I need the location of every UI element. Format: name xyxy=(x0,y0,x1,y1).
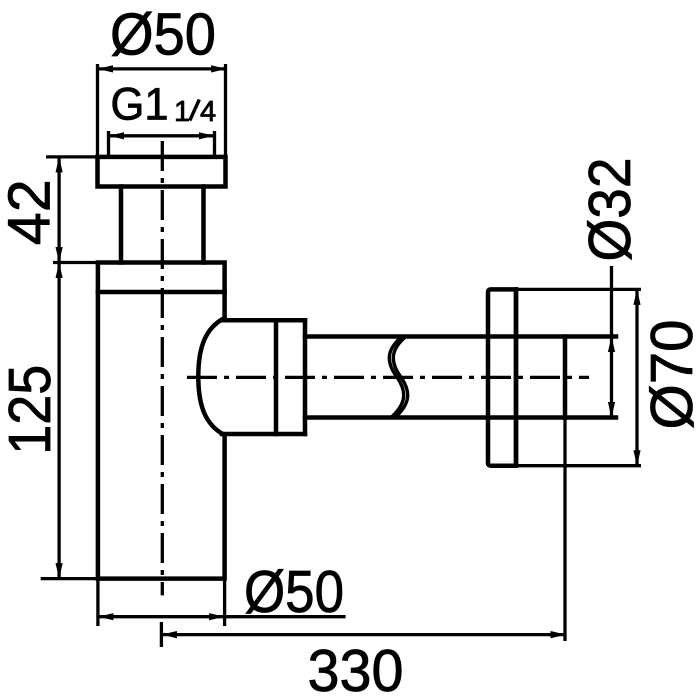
outlet pipe top wall xyxy=(305,334,616,339)
pipe break squiggle xyxy=(389,337,407,418)
arrow 42 bottom xyxy=(56,247,63,263)
horizontal centerline xyxy=(187,376,589,379)
svg-text:G1: G1 xyxy=(111,79,169,130)
svg-text:125: 125 xyxy=(0,365,63,455)
svg-text:Ø32: Ø32 xyxy=(577,158,643,262)
ext lines Ø50 top xyxy=(98,64,226,157)
dim line 330 xyxy=(161,633,566,636)
pipe end cap xyxy=(563,337,568,418)
neck tube right wall xyxy=(201,187,206,263)
ext line at collar top xyxy=(53,261,121,264)
arrow G1 right xyxy=(199,132,215,139)
arrow Ø32 top xyxy=(608,337,615,353)
dim line Ø50 bottom xyxy=(98,615,346,618)
trap body cup xyxy=(98,263,225,579)
dim line Ø70 xyxy=(635,289,638,465)
ext line at body bottom xyxy=(41,577,98,580)
dim line Ø50 top xyxy=(98,67,227,70)
arrow Ø50 bottom left xyxy=(98,613,114,620)
arrow 330 right xyxy=(551,631,567,638)
ext lines Ø70 xyxy=(516,289,641,465)
wall flange rear face xyxy=(514,289,519,465)
arrow Ø50 top right xyxy=(211,65,227,72)
elbow top edge xyxy=(222,318,305,323)
svg-text:Ø70: Ø70 xyxy=(639,320,700,430)
arrow 42 top xyxy=(56,157,63,173)
svg-text:1: 1 xyxy=(174,96,190,128)
dim line G1 1/4 xyxy=(109,134,215,137)
wall flange xyxy=(488,289,516,465)
svg-text:Ø50: Ø50 xyxy=(244,559,344,625)
arrow G1 left xyxy=(109,132,125,139)
elbow nut left face xyxy=(274,320,279,434)
elbow nut right face xyxy=(303,320,308,434)
ext line at nut top xyxy=(46,155,98,158)
arrow 125 bottom xyxy=(56,563,63,579)
elbow bottom edge xyxy=(222,432,305,437)
arrow 125 top xyxy=(56,263,63,279)
dimension lines xyxy=(41,64,641,647)
arrow 330 left xyxy=(161,631,177,638)
arrowheads xyxy=(56,65,641,638)
centerlines xyxy=(162,141,589,595)
arrow Ø70 bottom xyxy=(633,450,640,466)
label 1/4 slash xyxy=(190,100,200,121)
svg-text:42: 42 xyxy=(0,179,63,245)
svg-text:4: 4 xyxy=(200,96,216,128)
dim line 42 and 125 xyxy=(57,157,60,579)
ext line 330 right xyxy=(563,418,566,642)
arrow Ø50 bottom right xyxy=(209,613,225,620)
arrow Ø32 bottom xyxy=(608,402,615,418)
vertical centerline xyxy=(161,141,164,595)
top basin nut xyxy=(98,157,226,187)
svg-text:330: 330 xyxy=(308,638,404,700)
dim line Ø32 xyxy=(610,266,613,418)
elbow bulge curve xyxy=(198,318,224,435)
ext lines G1 1/4 xyxy=(109,131,215,157)
arrow Ø70 top xyxy=(633,289,640,305)
ext line 330 left xyxy=(160,622,163,647)
body collar bottom line xyxy=(98,290,225,295)
svg-text:Ø50: Ø50 xyxy=(110,2,216,68)
neck tube left wall xyxy=(119,187,124,263)
ext lines Ø50 bottom xyxy=(98,579,225,626)
arrow Ø50 top left xyxy=(98,65,114,72)
outlet pipe bottom wall xyxy=(305,415,616,420)
